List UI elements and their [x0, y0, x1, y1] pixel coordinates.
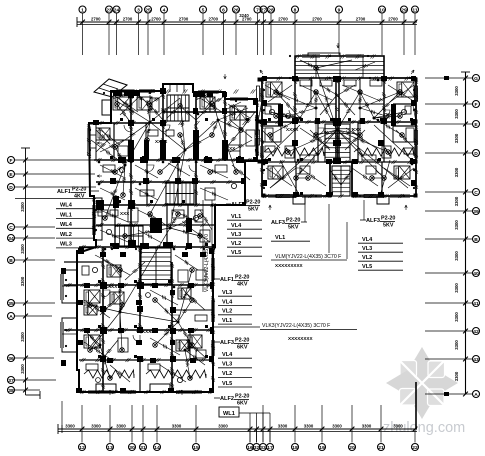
svg-text:3300: 3300 — [116, 424, 126, 429]
svg-text:VL4: VL4 — [231, 223, 242, 229]
svg-text:3300: 3300 — [454, 86, 459, 96]
feeder label VL3 — [218, 290, 252, 296]
svg-text:3300: 3300 — [20, 276, 25, 286]
svg-text:2700: 2700 — [278, 17, 288, 22]
svg-text:39: 39 — [473, 209, 479, 215]
svg-text:3300: 3300 — [278, 424, 288, 429]
svg-text:3300: 3300 — [454, 167, 459, 177]
svg-text:P2-20: P2-20 — [235, 275, 249, 281]
panel label ALF3 P2-20 5KV — [271, 218, 300, 231]
grid bubble axis 4 — [161, 6, 168, 13]
grid bubble axis C — [473, 189, 480, 196]
grid bubble axis 38 — [8, 387, 15, 394]
svg-text:3300: 3300 — [454, 371, 459, 381]
feeder connection lines bottom — [239, 413, 270, 443]
grid bubble axis 5 — [200, 6, 207, 13]
svg-text:VL4: VL4 — [362, 237, 373, 243]
svg-text:42: 42 — [473, 329, 479, 335]
grid bubble axis E — [473, 121, 480, 128]
svg-text:2700: 2700 — [91, 17, 101, 22]
right unit wall pockets — [262, 76, 416, 197]
grid bubble axis 16 — [247, 444, 254, 451]
svg-text:36: 36 — [8, 356, 14, 362]
right axis arms — [425, 76, 472, 397]
svg-text:27: 27 — [261, 7, 267, 13]
right unit bold room labels — [286, 127, 362, 132]
scatter switch boxes — [98, 118, 413, 358]
svg-text:VL2: VL2 — [222, 371, 232, 377]
svg-text:24: 24 — [114, 7, 120, 13]
grid bubble axis 18 — [292, 444, 299, 451]
grid bubble axis 27 — [260, 6, 267, 13]
cable spec text VLM — [271, 254, 347, 268]
svg-text:2700: 2700 — [356, 17, 366, 22]
svg-text:VL3: VL3 — [231, 232, 241, 238]
svg-text:3300: 3300 — [172, 424, 182, 429]
grid bubble axis B — [8, 257, 15, 264]
panel label ALF1 P2-20 4KV — [57, 187, 86, 200]
top axis dimension line — [77, 17, 417, 27]
svg-text:A: A — [9, 314, 13, 320]
grid bubble axis 39 — [473, 208, 480, 215]
svg-text:3300: 3300 — [454, 109, 459, 119]
left complex wall pockets — [61, 88, 258, 393]
extra wiring left complex lower — [84, 255, 206, 382]
left complex internal walls lower — [64, 247, 213, 392]
svg-text:22: 22 — [412, 445, 418, 451]
svg-text:VL4: VL4 — [222, 352, 233, 358]
svg-text:VLM(YJV22-L(4X35) 3C70 F: VLM(YJV22-L(4X35) 3C70 F — [275, 254, 341, 260]
svg-text:9: 9 — [338, 7, 341, 13]
svg-text:26: 26 — [233, 7, 239, 13]
grid bubble axis A — [8, 313, 15, 320]
grid bubble axis 31 — [140, 444, 147, 451]
svg-text:ALF2: ALF2 — [231, 202, 245, 208]
feeder label VL2 — [358, 255, 403, 261]
svg-text:3300: 3300 — [91, 424, 101, 429]
left complex room labels — [105, 139, 236, 334]
grid bubble axis F — [473, 101, 480, 108]
svg-text:3300: 3300 — [454, 196, 459, 206]
cable spec text VLK3 — [260, 323, 357, 341]
wall hatch marks left complex — [67, 90, 260, 395]
grid bubble axis D — [8, 184, 15, 191]
svg-text:3: 3 — [137, 7, 140, 13]
svg-text:15: 15 — [193, 445, 199, 451]
feeder label VL5 — [218, 381, 252, 387]
svg-text:1: 1 — [81, 7, 84, 13]
left complex beds and furniture — [82, 97, 255, 383]
right unit central staircase — [325, 124, 350, 162]
wall outlet dots — [65, 55, 415, 393]
svg-text:XXXXXXXXX: XXXXXXXXX — [275, 263, 304, 268]
svg-text:4: 4 — [163, 7, 166, 13]
svg-text:ALF3: ALF3 — [220, 340, 234, 346]
grid bubble axis 36 — [8, 355, 15, 362]
left axis arms — [15, 158, 97, 393]
svg-text:VL5: VL5 — [222, 381, 232, 387]
left complex balcony rails — [84, 370, 206, 378]
svg-text:3300: 3300 — [304, 424, 314, 429]
svg-text:F: F — [10, 158, 13, 164]
leader line ALF1 — [91, 190, 99, 192]
svg-text:VL3: VL3 — [362, 246, 372, 252]
feeder label WL4 — [56, 203, 95, 209]
svg-text:13: 13 — [107, 445, 113, 451]
svg-text:3300: 3300 — [454, 312, 459, 322]
svg-text:VL5: VL5 — [231, 250, 241, 256]
svg-text:6: 6 — [222, 7, 225, 13]
leader line ALF3 center — [301, 221, 307, 223]
svg-text:WL4: WL4 — [60, 203, 73, 209]
svg-text:2700: 2700 — [388, 17, 398, 22]
svg-text:5KV: 5KV — [288, 225, 299, 231]
svg-text:6KV: 6KV — [237, 345, 248, 351]
grid bubble axis 14 — [154, 444, 161, 451]
grid bubble axis 11 — [412, 6, 419, 13]
feeder label VL3 — [227, 232, 262, 238]
svg-text:4KV: 4KV — [237, 282, 248, 288]
svg-text:11: 11 — [412, 7, 417, 13]
top axis tick marks — [80, 20, 417, 25]
svg-text:3300: 3300 — [332, 424, 342, 429]
left complex internal walls upper — [94, 91, 257, 247]
left complex slanted entry canopy — [94, 79, 127, 97]
svg-text:14: 14 — [154, 445, 160, 451]
left complex windows — [61, 90, 259, 394]
svg-text:G: G — [474, 76, 478, 82]
grid bubble axis A — [473, 391, 480, 398]
feeder label VL2 — [218, 371, 252, 377]
grid bubble axis 15 — [193, 444, 200, 451]
left complex wall lamp dots — [98, 113, 214, 334]
svg-text:3300: 3300 — [218, 424, 228, 429]
feeder label WL1 — [56, 212, 95, 218]
svg-text:32: 32 — [254, 445, 260, 451]
right residential unit floor plan outline — [262, 53, 416, 196]
svg-text:VL2: VL2 — [362, 255, 372, 261]
svg-text:C: C — [474, 190, 478, 196]
svg-text:43: 43 — [473, 357, 479, 363]
svg-text:VL2: VL2 — [222, 309, 232, 315]
leader line ALF3 right — [360, 219, 366, 221]
svg-text:3300: 3300 — [20, 332, 25, 342]
svg-text:XXX: XXX — [120, 211, 130, 216]
grid bubble axis E — [8, 171, 15, 178]
svg-text:3300: 3300 — [454, 283, 459, 293]
svg-text:P2-20: P2-20 — [246, 200, 260, 206]
svg-text:34: 34 — [8, 236, 14, 242]
right unit arrows — [260, 43, 414, 210]
svg-text:VL1: VL1 — [222, 318, 232, 324]
grid bubble axis 22 — [412, 444, 419, 451]
wall hatch marks right unit — [260, 55, 418, 199]
svg-text:3300: 3300 — [454, 340, 459, 350]
grid bubble axis 23 — [106, 6, 113, 13]
svg-text:VL5: VL5 — [362, 264, 372, 270]
panel label ALF3 P2-20 6KV lower — [220, 338, 249, 351]
svg-text:VL3: VL3 — [222, 290, 232, 296]
svg-text:WL2: WL2 — [60, 232, 72, 238]
grid bubble axis 8 — [292, 6, 299, 13]
connector lines between plans — [213, 200, 364, 398]
svg-text:C: C — [9, 225, 13, 231]
svg-text:2700: 2700 — [312, 17, 322, 22]
svg-text:P2-20: P2-20 — [286, 218, 300, 224]
right unit internal walls — [262, 78, 416, 196]
grid bubble axis 25 — [145, 6, 152, 13]
svg-text:XXXX: XXXX — [155, 139, 168, 144]
grid bubble axis 3 — [135, 6, 142, 13]
feeder label WL3 — [56, 242, 95, 248]
grid bubble axis 42 — [473, 328, 480, 335]
svg-text:3300: 3300 — [393, 424, 403, 429]
svg-text:12: 12 — [79, 445, 85, 451]
svg-text:ALF3: ALF3 — [366, 218, 380, 224]
feeder label VL4 — [227, 223, 262, 229]
panel label ALF2 P2-20 5KV — [231, 200, 260, 213]
right axis line — [461, 72, 470, 394]
svg-text:2700: 2700 — [151, 17, 161, 22]
svg-text:4KV: 4KV — [74, 194, 85, 200]
svg-text:21: 21 — [378, 445, 384, 451]
svg-text:3300: 3300 — [20, 364, 25, 374]
svg-text:18: 18 — [292, 445, 298, 451]
svg-text:31: 31 — [140, 445, 146, 451]
svg-text:D: D — [9, 185, 13, 191]
right unit wall lamp dots — [263, 79, 414, 196]
svg-text:WL3: WL3 — [60, 242, 72, 248]
grid bubble axis 40 — [473, 270, 480, 277]
grid bubble axis 41 — [473, 300, 480, 307]
feeder label VL1 — [218, 318, 252, 324]
svg-text:ALF2: ALF2 — [220, 396, 234, 402]
left complex wiring runs — [84, 95, 248, 378]
svg-text:6KV: 6KV — [237, 401, 248, 407]
right unit windows — [257, 86, 418, 198]
grid bubble axis 7 — [254, 6, 261, 13]
svg-text:XXX: XXX — [352, 127, 362, 132]
extra wiring B center — [300, 60, 375, 185]
svg-text:WL4: WL4 — [60, 222, 73, 228]
bottom axis dimension line — [58, 424, 417, 434]
right unit wiring runs — [258, 60, 416, 196]
svg-text:10: 10 — [379, 7, 385, 13]
grid bubble axis 32 — [253, 444, 260, 451]
extra wiring right unit — [262, 85, 414, 188]
feeder label VL4 — [358, 237, 403, 243]
svg-text:XXXX: XXXX — [105, 284, 118, 289]
svg-text:5KV: 5KV — [383, 223, 394, 229]
grid bubble axis 12 — [79, 444, 86, 451]
right unit lower stair recess — [293, 166, 389, 204]
svg-text:38: 38 — [8, 388, 14, 394]
feeder label VL2 — [227, 241, 262, 247]
svg-text:A: A — [474, 392, 478, 398]
svg-text:3300: 3300 — [362, 424, 372, 429]
grid bubble axis 37 — [8, 377, 15, 384]
grid bubble axis 10 — [379, 6, 386, 13]
panel label ALF3 P2-20 5KV right — [366, 216, 395, 229]
svg-text:ALF3: ALF3 — [271, 220, 285, 226]
grid bubble axis B — [473, 236, 480, 243]
svg-text:P2-20: P2-20 — [235, 394, 249, 400]
svg-text:P2-20: P2-20 — [72, 187, 86, 193]
svg-text:37: 37 — [8, 378, 14, 384]
watermark zhulong compass logo — [386, 347, 458, 419]
svg-text:17: 17 — [267, 445, 273, 451]
grid bubble axis 17 — [267, 444, 274, 451]
svg-text:30: 30 — [129, 445, 135, 451]
left axis line — [21, 148, 40, 399]
feeder label VL4 — [218, 352, 252, 358]
svg-text:P2-20: P2-20 — [381, 216, 395, 222]
svg-text:3240: 3240 — [239, 13, 249, 18]
svg-text:19: 19 — [319, 445, 325, 451]
feeder label WL4 — [56, 222, 95, 228]
grid bubble axis 26 — [233, 6, 240, 13]
right unit columns — [258, 78, 418, 198]
grid bubble axis 29 — [401, 6, 408, 13]
left complex top wall label blobs — [113, 92, 213, 97]
grid bubble axis 30 — [129, 444, 136, 451]
left complex stair bay windows — [102, 84, 184, 115]
grid bubble axis 33 — [260, 444, 267, 451]
left complex arrows — [97, 74, 226, 395]
right unit door swings — [289, 110, 390, 174]
svg-text:3300: 3300 — [20, 244, 25, 254]
svg-text:3300: 3300 — [20, 202, 25, 212]
grid bubble axis 9 — [336, 6, 343, 13]
grid bubble axis 1 — [79, 6, 86, 13]
left complex upper stair — [167, 95, 189, 121]
left complex ceiling lamps — [88, 102, 244, 381]
grid bubble axis G — [473, 75, 480, 82]
svg-text:28: 28 — [268, 7, 274, 13]
left residential complex outline — [77, 84, 257, 392]
svg-text:WL1: WL1 — [60, 212, 72, 218]
svg-text:XXXXXXXX: XXXXXXXX — [288, 336, 313, 341]
feeder label VL5 — [227, 250, 262, 256]
svg-text:F: F — [475, 102, 478, 108]
extra wiring upper rooms A — [96, 92, 255, 152]
right axis dimension values — [454, 86, 459, 382]
left complex door swings — [103, 125, 196, 342]
svg-text:25: 25 — [145, 7, 151, 13]
grid bubble axis 35 — [8, 300, 15, 307]
grid bubble axis 24 — [113, 6, 120, 13]
svg-text:2700: 2700 — [123, 17, 133, 22]
svg-text:D: D — [474, 151, 478, 157]
feeder label VL1 — [271, 235, 310, 241]
svg-text:ALF1: ALF1 — [220, 277, 234, 283]
grid bubble axis D — [473, 150, 480, 157]
left complex bay window cells — [62, 124, 102, 352]
feeder label VL2 — [218, 309, 252, 315]
riser cable vertical text — [203, 200, 212, 292]
feeder label VL3 — [218, 362, 252, 368]
svg-text:VL1: VL1 — [275, 235, 285, 241]
extra wiring left complex mid — [98, 96, 252, 243]
grid bubble axis 19 — [319, 444, 326, 451]
bottom axis tick marks — [62, 425, 417, 433]
feeder label VL5 — [358, 264, 403, 270]
grid bubble axis 34 — [8, 235, 15, 242]
svg-text:2700: 2700 — [179, 17, 189, 22]
svg-text:40: 40 — [473, 271, 479, 277]
right unit ceiling lamps — [268, 66, 405, 181]
svg-text:VL3: VL3 — [222, 362, 232, 368]
grid bubble axis 20 — [349, 444, 356, 451]
feeder label VL3 — [358, 246, 403, 252]
svg-text:29: 29 — [401, 7, 407, 13]
svg-text:3300: 3300 — [454, 251, 459, 261]
left complex porches — [96, 384, 170, 392]
feeder label VL4 — [218, 299, 252, 305]
svg-text:20: 20 — [349, 445, 355, 451]
feeder label WL2 — [56, 232, 95, 238]
right unit beds and furniture — [265, 80, 414, 179]
feeder label WL1 boxed — [219, 407, 239, 417]
panel label ALF1 P2-20 4KV lower — [220, 275, 249, 288]
grid bubble axis 28 — [268, 6, 275, 13]
svg-text:23: 23 — [106, 7, 112, 13]
grid bubble axis C — [8, 224, 15, 231]
svg-text:B: B — [9, 258, 13, 264]
svg-text:5: 5 — [202, 7, 205, 13]
bottom axis dimension values — [65, 424, 403, 429]
svg-text:VL2: VL2 — [231, 241, 241, 247]
left complex staircases — [115, 183, 194, 284]
right unit windows — [261, 55, 418, 198]
svg-text:5KV: 5KV — [248, 207, 259, 213]
svg-text:VL4: VL4 — [222, 299, 233, 305]
svg-text:33: 33 — [260, 445, 266, 451]
bottom axis grid stems — [62, 382, 416, 443]
svg-text:3300: 3300 — [65, 424, 75, 429]
svg-text:3300: 3300 — [454, 220, 459, 230]
grid bubble axis 6 — [220, 6, 227, 13]
grid bubble axis 13 — [107, 444, 114, 451]
grid bubble axis 43 — [473, 356, 480, 363]
left axis dimension values — [20, 202, 25, 374]
svg-text:VLK3(JV22-L(4X35) 3C70: VLK3(JV22-L(4X35) 3C70 — [204, 234, 210, 292]
svg-text:41: 41 — [473, 301, 479, 307]
svg-text:B: B — [474, 237, 478, 243]
top axis dimension values — [91, 13, 398, 22]
top axis grid stems — [83, 13, 416, 55]
svg-text:2700: 2700 — [208, 17, 218, 22]
grid bubble axis F — [8, 157, 15, 164]
svg-text:WL1: WL1 — [223, 411, 235, 417]
svg-text:VLK3(YJV22-L(4X35) 3C70 F: VLK3(YJV22-L(4X35) 3C70 F — [262, 323, 330, 329]
svg-text:16: 16 — [247, 445, 253, 451]
svg-text:3300: 3300 — [454, 133, 459, 143]
svg-text:P2-20: P2-20 — [235, 338, 249, 344]
svg-text:ALF1: ALF1 — [57, 189, 71, 195]
svg-text:35: 35 — [8, 301, 14, 307]
grid bubble axis 21 — [378, 444, 385, 451]
right unit balcony folding doors — [264, 148, 414, 156]
svg-text:VL1: VL1 — [231, 214, 241, 220]
feeder label VL1 — [227, 214, 262, 220]
panel label ALF2 P2-20 6KV bottom — [220, 394, 249, 407]
svg-text:7: 7 — [256, 7, 259, 13]
svg-text:8: 8 — [294, 7, 297, 13]
